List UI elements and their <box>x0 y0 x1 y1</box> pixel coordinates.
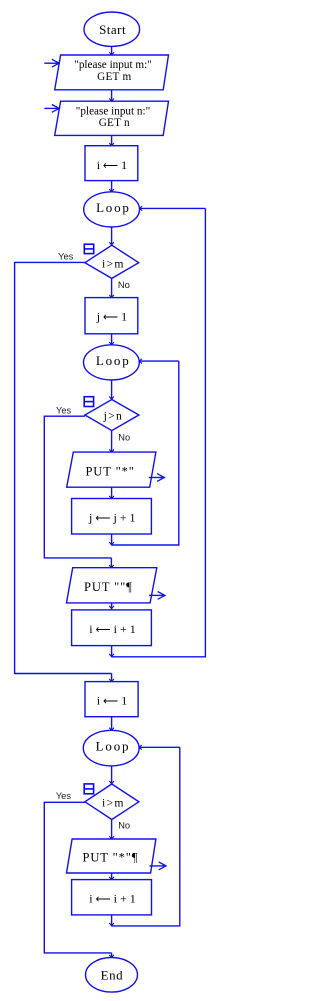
wire i increment down to outer rail <box>111 646 113 657</box>
svg-text:Loop: Loop <box>96 739 131 754</box>
wire to Loop3 <box>111 717 113 731</box>
wire Start to GET m <box>111 46 113 55</box>
wire Yes branch diamond2 left and down <box>44 416 111 558</box>
parallelogram PUT newline <box>67 568 157 603</box>
wire diamond2 to PUT star <box>111 431 113 453</box>
svg-text:i>m: i>m <box>102 257 125 270</box>
oval End <box>86 958 138 993</box>
svg-text:i ⟵ i + 1: i ⟵ i + 1 <box>89 622 136 636</box>
svg-text:j ⟵ 1: j ⟵ 1 <box>96 310 127 324</box>
svg-text:Loop: Loop <box>96 200 131 215</box>
arrow into PUT newline <box>110 558 112 568</box>
svg-text:j ⟵ j + 1: j ⟵ j + 1 <box>88 510 136 524</box>
diamond j>n <box>85 400 139 431</box>
collapse icon diamond2 <box>84 397 93 407</box>
wire outer loop return rail <box>112 208 206 656</box>
arrow into i gets 1 second <box>111 674 113 682</box>
svg-text:i ⟵ 1: i ⟵ 1 <box>97 694 127 708</box>
arrow into Loop2 right <box>139 360 179 362</box>
input arrow into GET n <box>44 107 59 109</box>
svg-text:"please input n:": "please input n:" <box>76 105 150 117</box>
svg-text:Yes: Yes <box>58 252 74 262</box>
output arrow PUT newline <box>149 594 165 596</box>
wire to Loop2 <box>111 334 113 345</box>
wire diamond3 to PUT star newline <box>111 820 113 840</box>
svg-text:GET n: GET n <box>99 117 130 129</box>
svg-text:Start: Start <box>99 22 126 37</box>
rectangle i gets 1 second <box>85 682 138 717</box>
svg-text:i>m: i>m <box>102 796 125 809</box>
rectangle i gets 1 <box>85 146 138 181</box>
parallelogram GET m <box>55 55 169 90</box>
svg-text:Yes: Yes <box>56 791 72 801</box>
rectangle i gets i plus 1 second <box>72 880 152 915</box>
wire PUT star to j increment <box>111 487 113 498</box>
svg-text:GET m: GET m <box>97 71 131 83</box>
wire PUT newline to i increment <box>111 603 113 609</box>
oval Loop1 <box>84 192 140 227</box>
parallelogram PUT star newline <box>67 839 156 873</box>
output arrow PUT star <box>149 477 164 479</box>
svg-text:PUT ""¶: PUT ""¶ <box>84 580 133 594</box>
svg-text:End: End <box>101 968 123 983</box>
parallelogram PUT star <box>67 452 156 487</box>
output arrow PUT star newline <box>149 865 166 867</box>
svg-text:"please input m:": "please input m:" <box>74 59 152 71</box>
parallelogram GET n <box>55 101 169 135</box>
wire Yes branch diamond1 left and down <box>15 262 112 673</box>
diamond i>m <box>85 245 139 278</box>
wire Loop1 to diamond i>m <box>111 227 113 245</box>
wire inner loop return rail <box>112 361 179 545</box>
svg-text:PUT "*"¶: PUT "*"¶ <box>82 851 138 865</box>
svg-text:No: No <box>118 820 130 830</box>
wire j increment down to inner rail <box>111 534 113 545</box>
arrow into Loop3 right <box>139 746 180 748</box>
collapse icon diamond3 <box>84 784 93 794</box>
arrow into Loop1 right <box>140 207 206 209</box>
svg-text:Yes: Yes <box>56 406 72 416</box>
svg-text:No: No <box>118 433 130 443</box>
oval Start <box>84 12 140 46</box>
wire GET n to i assign <box>111 135 113 145</box>
wire to Loop1 <box>111 181 113 192</box>
wire PUT star newline to i increment second <box>111 873 113 880</box>
oval Loop2 <box>84 345 140 380</box>
wire diamond1 to j gets 1 <box>111 278 113 297</box>
svg-text:Loop: Loop <box>96 353 131 368</box>
svg-text:j>n: j>n <box>103 410 124 423</box>
rectangle j gets j plus 1 <box>72 499 152 535</box>
svg-text:No: No <box>118 280 130 290</box>
wire loop3 return rail <box>112 747 180 926</box>
wire Loop2 to diamond j>n <box>111 380 113 399</box>
input arrow into GET m <box>44 62 59 64</box>
wire Loop3 to diamond i>m second <box>111 766 113 784</box>
rectangle j gets 1 <box>85 298 138 334</box>
collapse icon diamond1 <box>84 244 93 253</box>
rectangle i gets i plus 1 <box>72 610 152 646</box>
wire Yes branch diamond3 left and down to End <box>44 802 111 953</box>
wire i increment second down to rail3 <box>111 915 113 926</box>
diamond i>m second <box>85 784 139 820</box>
oval Loop3 <box>83 730 139 766</box>
svg-text:i ⟵ 1: i ⟵ 1 <box>97 158 127 172</box>
wire GET m to GET n <box>111 90 113 101</box>
svg-text:PUT "*": PUT "*" <box>85 465 134 479</box>
svg-text:i ⟵ i + 1: i ⟵ i + 1 <box>89 892 136 906</box>
arrow into End <box>111 953 113 958</box>
